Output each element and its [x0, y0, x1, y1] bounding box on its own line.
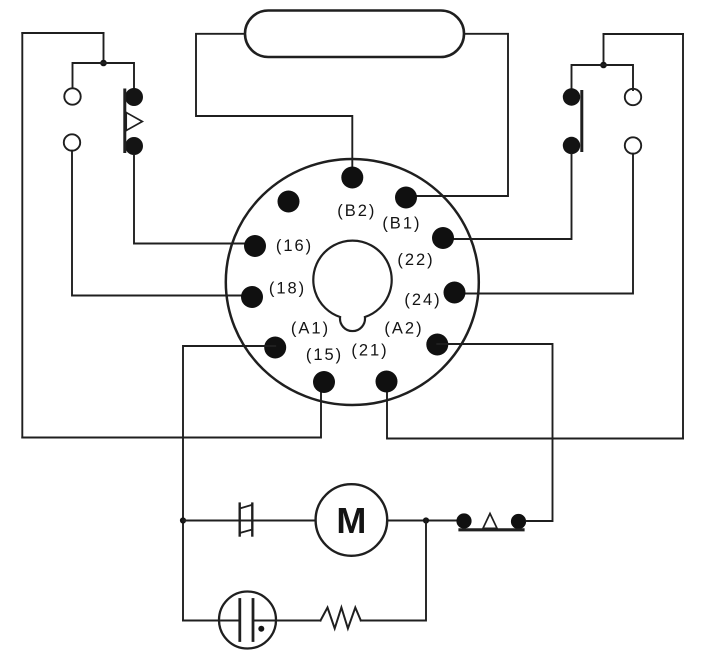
- wire: S1 open contact bottom to pin 18: [72, 151, 252, 296]
- wire: left rail vertical: [21, 33, 23, 438]
- capacitor left plate: [238, 600, 241, 641]
- wire: junction to S1 closed contact top: [104, 63, 135, 89]
- switch S2 closed contact bottom terminal: [563, 137, 580, 154]
- wire: capacitor row left lead: [183, 620, 240, 622]
- wire: capacitor lead inside circle: [221, 620, 240, 622]
- timer contact left ball: [456, 513, 471, 528]
- pin 24: [444, 282, 466, 304]
- wire: bottom-left rail horizontal to pin 15 riser: [22, 388, 321, 438]
- socket center keyhole: [313, 241, 391, 331]
- switch S1 contact bar: [123, 90, 126, 152]
- node: left switch feed junction: [100, 60, 107, 67]
- wire: S1 closed contact bottom to pin 16: [134, 155, 255, 244]
- pin 18: [241, 286, 263, 308]
- clutch symbol left bar: [238, 504, 240, 536]
- capacitor right plate: [252, 600, 255, 641]
- socket outline circle: [226, 159, 479, 405]
- switch S2 contact bar: [580, 92, 583, 151]
- clutch symbol bottom diagonal: [240, 530, 253, 534]
- wire: S2 closed contact bottom to pin 22: [443, 154, 572, 239]
- timer contact right ball: [511, 514, 526, 529]
- switch S2 open contact bottom terminal: [625, 137, 641, 153]
- svg-text:(21): (21): [351, 342, 388, 360]
- pin A1: [264, 337, 286, 359]
- motor M circle: [316, 484, 388, 556]
- clutch symbol top diagonal: [240, 505, 253, 509]
- wire: pin A2 down to contact output: [437, 344, 552, 521]
- svg-text:(B1): (B1): [382, 215, 421, 233]
- svg-text:(16): (16): [276, 237, 313, 255]
- wire: S2 open contact bottom to pin 24: [455, 154, 634, 294]
- switch S2 open contact top terminal: [625, 89, 641, 105]
- svg-text:(18): (18): [269, 280, 306, 298]
- wire: pin A1 to motor branch vertical: [183, 346, 275, 621]
- clutch symbol right bar: [251, 504, 253, 536]
- wire: right rail vertical: [682, 34, 684, 439]
- wire: top-left rail horizontal: [22, 32, 103, 34]
- pin 21: [376, 371, 398, 393]
- wire: bottom-right rail horizontal to pin 21 riser: [387, 388, 683, 439]
- wire: unit left lead to pin B2: [196, 34, 352, 172]
- node: right switch feed junction: [600, 62, 607, 69]
- node: motor branch right junction: [423, 517, 429, 523]
- switch S1 closed contact top terminal: [125, 88, 143, 106]
- capacitor polarity dot: [258, 626, 264, 632]
- timer contact cam triangle: [483, 514, 497, 529]
- wire: junction to S2 closed contact top: [572, 65, 604, 90]
- svg-text:(A1): (A1): [291, 320, 330, 338]
- svg-text:(A2): (A2): [384, 320, 423, 338]
- switch S2 closed contact top terminal: [563, 88, 580, 105]
- wire: motor row horizontal: [183, 520, 457, 522]
- wire: resistor to right riser: [361, 521, 426, 621]
- switch S1 actuator triangle: [126, 113, 142, 131]
- pin 22: [432, 227, 454, 249]
- pin 16: [244, 235, 266, 257]
- svg-text:M: M: [336, 500, 366, 541]
- svg-text:(24): (24): [404, 291, 441, 309]
- wire: capacitor to resistor: [253, 620, 321, 622]
- pin 15: [313, 371, 335, 393]
- pin B2: [341, 167, 363, 189]
- resistor R zigzag: [321, 608, 361, 629]
- wire: junction to S2 open contact top: [604, 65, 634, 90]
- pin spare top-left: [278, 191, 300, 213]
- wire: drop from top-left rail to junction: [103, 33, 105, 63]
- timer contact bridge bar: [460, 528, 523, 531]
- switch S1 open contact top terminal: [64, 88, 80, 104]
- svg-text:(15): (15): [306, 346, 343, 364]
- svg-text:(B2): (B2): [337, 202, 376, 220]
- capacitor C circle: [219, 592, 276, 649]
- pin A2: [426, 334, 448, 356]
- node: motor branch left junction: [180, 517, 186, 523]
- wire: junction to S1 open contact top: [73, 63, 104, 88]
- pin B1: [395, 187, 417, 209]
- wire: unit right lead to pin B1: [405, 34, 508, 196]
- switch S1 open contact bottom terminal: [64, 134, 80, 150]
- plug-in unit outline (pill): [245, 11, 464, 58]
- svg-text:(22): (22): [397, 251, 434, 269]
- wire: top-right rail horizontal: [604, 33, 684, 35]
- wire: drop from top-right rail to junction: [603, 34, 605, 65]
- switch S1 closed contact bottom terminal: [125, 137, 143, 155]
